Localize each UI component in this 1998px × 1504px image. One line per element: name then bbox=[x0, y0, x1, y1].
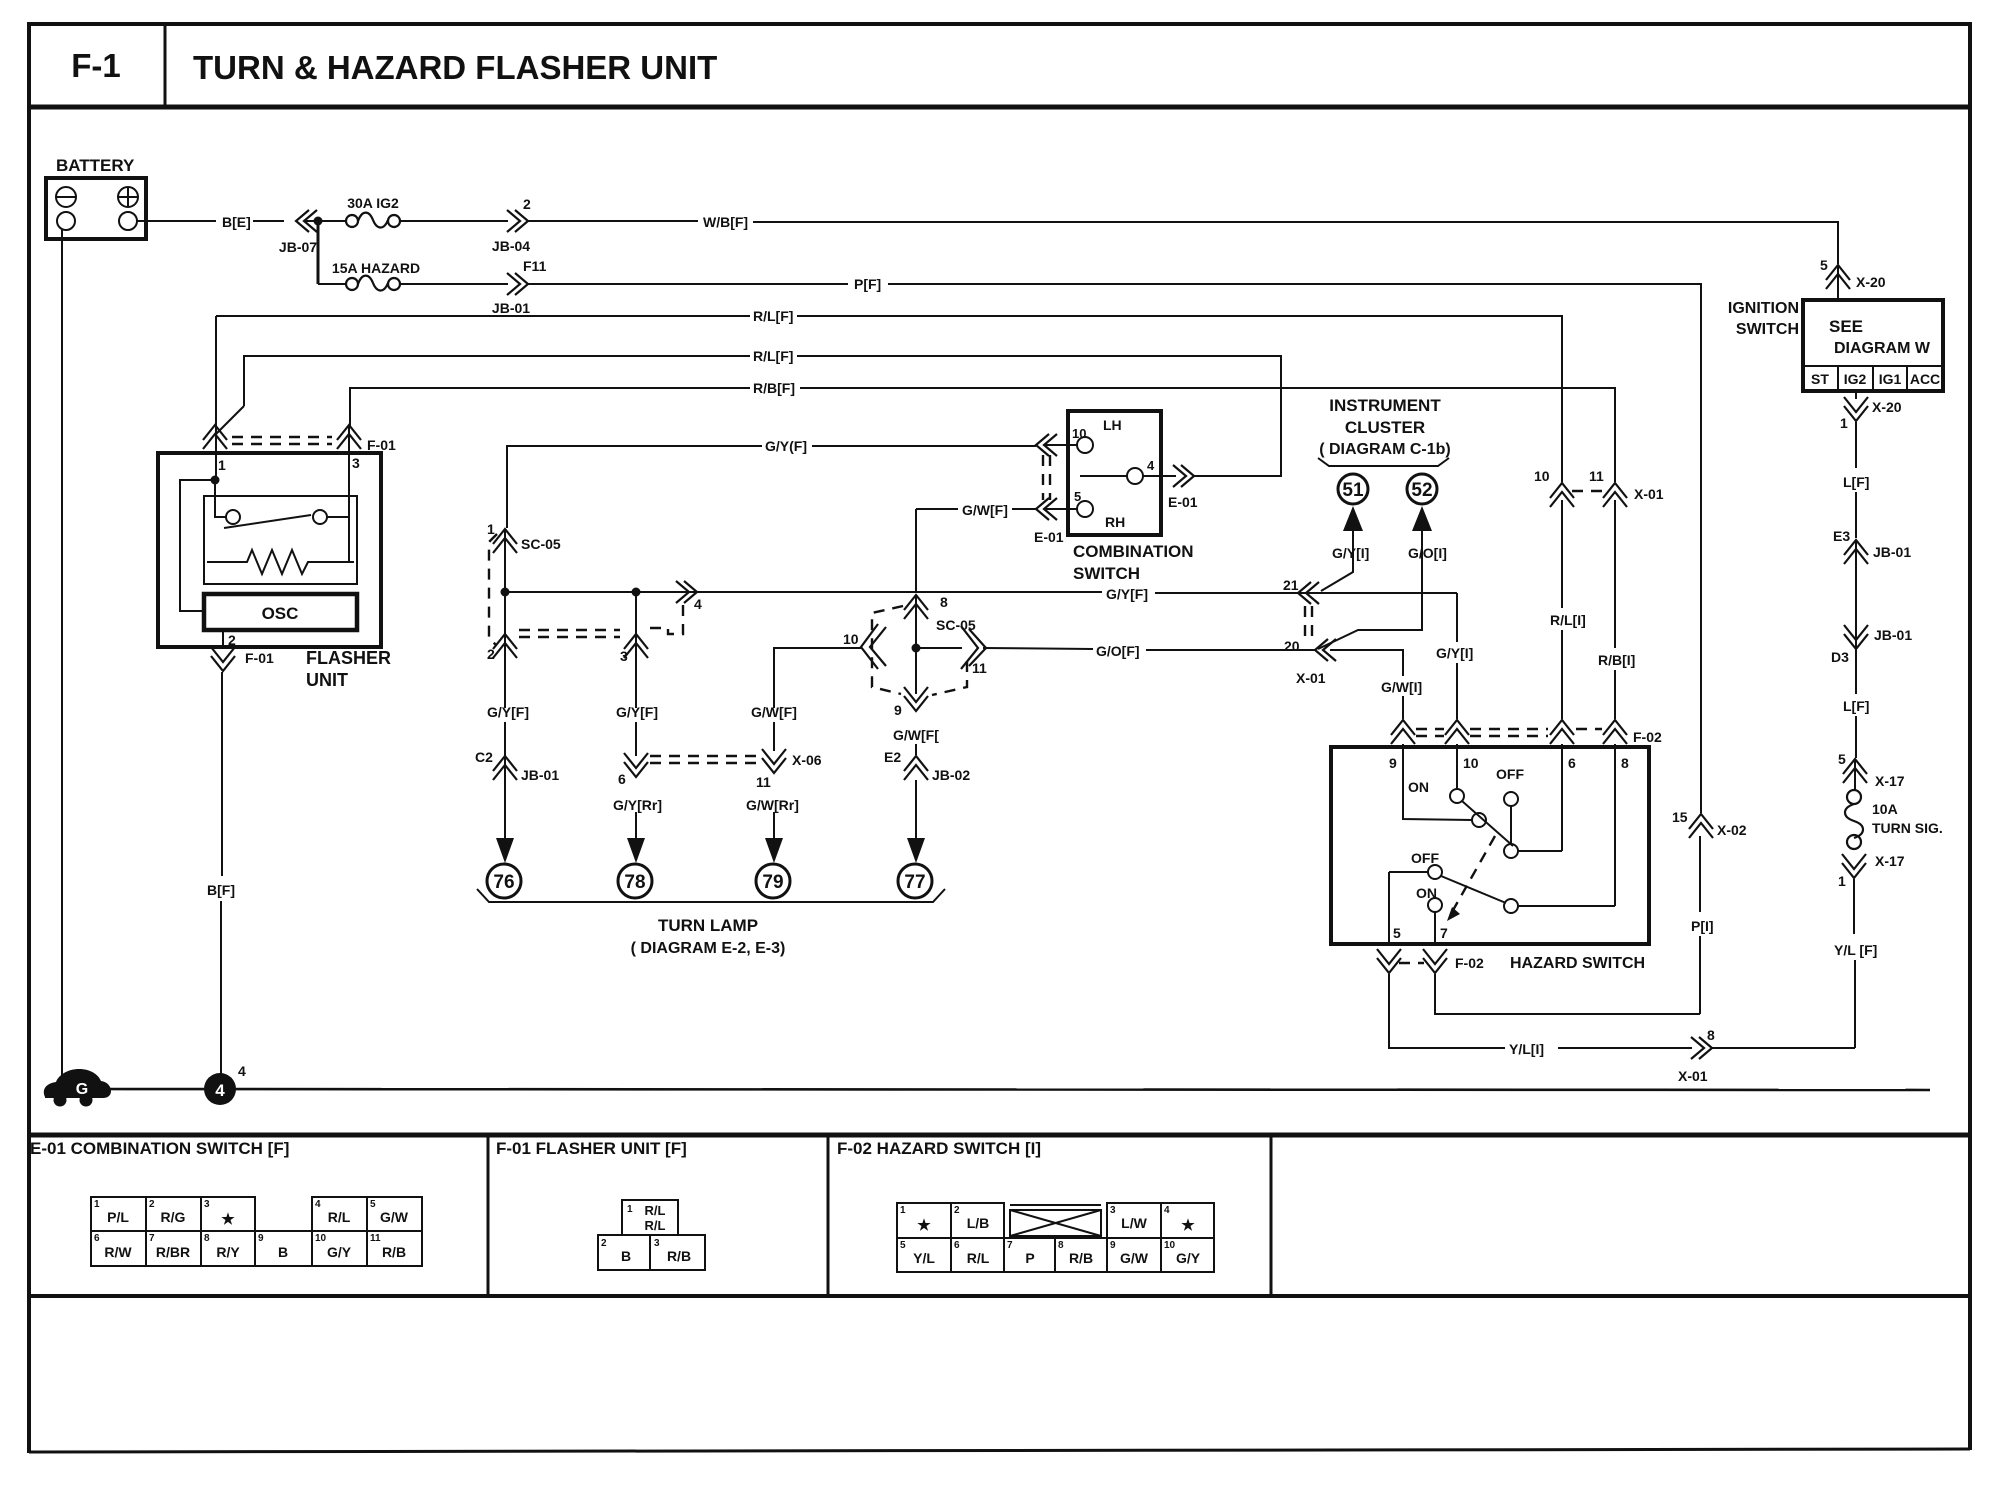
svg-text:Y/L: Y/L bbox=[913, 1250, 935, 1266]
svg-text:F-02 HAZARD SWITCH [I]: F-02 HAZARD SWITCH [I] bbox=[837, 1139, 1041, 1158]
svg-text:8: 8 bbox=[204, 1233, 210, 1244]
connector 4 bbox=[676, 581, 702, 612]
svg-text:R/L: R/L bbox=[645, 1203, 666, 1218]
svg-text:5: 5 bbox=[1838, 751, 1846, 767]
mech link dashed bbox=[1452, 836, 1495, 912]
wire R/B[F] bbox=[350, 388, 750, 426]
relay contact right bbox=[313, 510, 327, 524]
ignition switch box bbox=[1803, 300, 1943, 391]
svg-text:5: 5 bbox=[900, 1240, 906, 1251]
svg-text:10: 10 bbox=[1164, 1240, 1176, 1251]
wire R/L[I] drop bbox=[1561, 500, 1563, 608]
wires to box bottom bbox=[1388, 872, 1390, 944]
connector X-01 pin 10 bbox=[1534, 468, 1574, 507]
svg-text:10: 10 bbox=[843, 631, 859, 647]
svg-text:2: 2 bbox=[523, 196, 531, 212]
connector F-02 pin 6 bbox=[1550, 720, 1574, 744]
svg-text:5: 5 bbox=[370, 1199, 376, 1210]
fuse 15A HAZARD bbox=[332, 260, 420, 291]
wire SC-05 1-2 bbox=[504, 530, 506, 708]
svg-text:R/B: R/B bbox=[1069, 1250, 1093, 1266]
svg-text:ON: ON bbox=[1408, 779, 1429, 795]
panel divider E-01/F-01 bbox=[487, 1135, 490, 1296]
connector X-01 pin 21 bbox=[1283, 577, 1319, 604]
svg-text:3: 3 bbox=[1110, 1205, 1116, 1216]
svg-text:JB-07: JB-07 bbox=[279, 239, 317, 255]
wire Y/L[F] upper bbox=[1853, 879, 1855, 934]
wire P[I] riser upper bbox=[1699, 836, 1701, 912]
hazard upper switch bbox=[1408, 766, 1562, 858]
svg-text:X-02: X-02 bbox=[1717, 822, 1747, 838]
lamp 78 bbox=[618, 864, 652, 898]
F-01 connector pin grid bbox=[598, 1200, 705, 1270]
wire R/L[F] upper right run to R/L[I] drop bbox=[797, 316, 1562, 482]
svg-text:B[E]: B[E] bbox=[222, 214, 251, 230]
wire 77 feed bbox=[915, 780, 917, 838]
svg-text:X-17: X-17 bbox=[1875, 773, 1905, 789]
svg-text:3: 3 bbox=[352, 455, 360, 471]
fuse 30A IG2 bbox=[346, 195, 400, 228]
svg-text:R/L[I]: R/L[I] bbox=[1550, 612, 1586, 628]
wire E-01 to pin5 bbox=[1044, 508, 1077, 510]
svg-text:4: 4 bbox=[1147, 458, 1155, 473]
E-01 connector pin grid bbox=[91, 1197, 422, 1266]
wire W/B[F] to ignition corner bbox=[753, 222, 1838, 264]
svg-text:4: 4 bbox=[215, 1081, 225, 1100]
lamp 79 bbox=[756, 864, 790, 898]
svg-text:TURN & HAZARD FLASHER UNIT: TURN & HAZARD FLASHER UNIT bbox=[193, 49, 717, 86]
svg-text:8: 8 bbox=[1707, 1027, 1715, 1043]
svg-text:1: 1 bbox=[627, 1204, 633, 1215]
svg-text:11: 11 bbox=[370, 1233, 381, 1244]
wire Y/L[I] to X-01 bbox=[1558, 1047, 1692, 1049]
OSC box bbox=[204, 594, 357, 630]
svg-text:5: 5 bbox=[1820, 257, 1828, 273]
connector SC-05 pin 9 bbox=[894, 687, 928, 718]
connector X-20 pin 1 bbox=[1840, 397, 1902, 431]
panel divider F-02/blank bbox=[1270, 1135, 1273, 1296]
connector E3 JB-01 bbox=[1833, 528, 1911, 564]
wire R/L[F] lower right run to comb switch pin4 bbox=[797, 356, 1281, 476]
fuse 10A TURN SIG bbox=[1845, 790, 1943, 849]
svg-text:F-1: F-1 bbox=[71, 47, 121, 84]
svg-text:9: 9 bbox=[1110, 1240, 1116, 1251]
wire to X-17 bbox=[1855, 716, 1857, 758]
wire B[F] upper bbox=[221, 672, 223, 876]
dashed link 2-3 bbox=[519, 630, 620, 637]
svg-text:1: 1 bbox=[1838, 873, 1846, 889]
svg-text:G: G bbox=[76, 1081, 88, 1098]
svg-text:11: 11 bbox=[756, 774, 771, 790]
svg-text:RH: RH bbox=[1105, 514, 1125, 530]
connector E2 JB-02 bbox=[884, 749, 970, 783]
lamp 77 bbox=[898, 864, 932, 898]
wire pin1 inside bbox=[215, 453, 217, 480]
svg-text:G/Y: G/Y bbox=[1176, 1250, 1201, 1266]
arrow into 51 bbox=[1343, 506, 1363, 531]
connector F-02 pin 10 bbox=[1445, 720, 1469, 744]
wire 78 to connector 6 bbox=[635, 722, 637, 756]
wire G/O[F] bbox=[983, 648, 1093, 649]
svg-text:X-01: X-01 bbox=[1634, 486, 1664, 502]
svg-text:R/B: R/B bbox=[667, 1248, 691, 1264]
wire L[F] lower bbox=[1855, 650, 1857, 694]
svg-text:L/B: L/B bbox=[967, 1215, 990, 1231]
connector E-01 pin 10 bbox=[1036, 434, 1057, 456]
svg-text:HAZARD SWITCH: HAZARD SWITCH bbox=[1510, 955, 1645, 972]
svg-text:G/W[F[: G/W[F[ bbox=[893, 727, 939, 743]
wire Y/L to right riser bbox=[1712, 1047, 1855, 1049]
dashed link F-01 pins bbox=[232, 437, 332, 444]
turn lamp group brace bbox=[477, 889, 945, 902]
connector X-01 pin 8 bbox=[1678, 1027, 1715, 1084]
svg-text:10: 10 bbox=[1534, 468, 1550, 484]
svg-text:5: 5 bbox=[1074, 489, 1081, 504]
wire osc feedback branch bbox=[180, 480, 215, 611]
svg-text:JB-02: JB-02 bbox=[932, 767, 970, 783]
svg-text:F-01: F-01 bbox=[367, 437, 396, 453]
svg-text:8: 8 bbox=[1621, 755, 1629, 771]
svg-text:77: 77 bbox=[904, 872, 925, 893]
F-02 connector pin grid bbox=[897, 1203, 1214, 1272]
indicator 52 bbox=[1407, 474, 1437, 504]
connector 11 sc05 bbox=[961, 626, 987, 676]
svg-text:R/L: R/L bbox=[328, 1209, 351, 1225]
wire 79 feed bbox=[773, 812, 775, 838]
svg-text:G/W: G/W bbox=[380, 1209, 409, 1225]
svg-text:SWITCH: SWITCH bbox=[1736, 321, 1799, 338]
dashed links F-02 top bbox=[1416, 729, 1602, 736]
svg-text:G/Y(F]: G/Y(F] bbox=[765, 438, 807, 454]
svg-text:1: 1 bbox=[487, 521, 495, 537]
svg-text:R/G: R/G bbox=[161, 1209, 186, 1225]
connector X-01 pin 11 bbox=[1589, 468, 1664, 507]
svg-text:4: 4 bbox=[238, 1063, 246, 1079]
junction node G/W bbox=[912, 644, 921, 653]
connector F-01 pin 3 bbox=[337, 425, 396, 471]
wire 79 upper bbox=[773, 722, 775, 751]
dashed link F-02 bottom bbox=[1399, 962, 1424, 964]
svg-text:76: 76 bbox=[493, 872, 514, 893]
svg-text:UNIT: UNIT bbox=[306, 670, 348, 690]
wire R/B[I] drop bbox=[1614, 500, 1616, 648]
wires into box top bbox=[1456, 744, 1458, 790]
svg-text:6: 6 bbox=[618, 771, 626, 787]
connector 11 X-06 bbox=[756, 749, 822, 790]
svg-text:ST: ST bbox=[1811, 371, 1829, 387]
indicator 51 bbox=[1338, 474, 1368, 504]
connector 6 X-06 bbox=[618, 753, 648, 787]
wire G/Y[I] drop to F-02 pin 10 bbox=[1456, 593, 1458, 642]
svg-text:R/BR: R/BR bbox=[156, 1244, 190, 1260]
wire W/B[F] left part bbox=[528, 220, 698, 222]
arrow into lamp 77 bbox=[907, 838, 925, 863]
wire hazard fuse branch bbox=[317, 221, 320, 284]
svg-text:1: 1 bbox=[94, 1199, 100, 1210]
svg-text:Y/L[I]: Y/L[I] bbox=[1509, 1041, 1544, 1057]
connector X-17 upper bbox=[1838, 751, 1905, 789]
svg-text:FLASHER: FLASHER bbox=[306, 648, 391, 668]
wire pin4 out bbox=[1143, 475, 1176, 477]
svg-text:D3: D3 bbox=[1831, 649, 1849, 665]
svg-text:SWITCH: SWITCH bbox=[1073, 564, 1140, 583]
wire G/O[F] to pin 20 bbox=[1146, 649, 1315, 651]
wire fuse to JB-04 bbox=[400, 220, 508, 222]
wire G/W[F] label to corner bbox=[916, 508, 958, 510]
svg-text:G/W[I]: G/W[I] bbox=[1381, 679, 1422, 695]
svg-text:10: 10 bbox=[315, 1233, 327, 1244]
svg-text:15: 15 bbox=[1672, 809, 1688, 825]
wire IG2 out bbox=[1855, 391, 1857, 399]
connector F-02 pin 9 bbox=[1391, 720, 1415, 744]
svg-text:6: 6 bbox=[1568, 755, 1576, 771]
svg-text:2: 2 bbox=[149, 1199, 155, 1210]
svg-text:G/Y[Rr]: G/Y[Rr] bbox=[613, 797, 662, 813]
svg-text:4: 4 bbox=[694, 596, 702, 612]
svg-text:8: 8 bbox=[940, 594, 948, 610]
dashed shield left bracket bbox=[489, 534, 497, 645]
dashed link 3-4 bbox=[650, 604, 683, 634]
svg-text:C2: C2 bbox=[475, 749, 493, 765]
svg-text:R/B: R/B bbox=[382, 1244, 406, 1260]
wire 78 feed bbox=[635, 812, 637, 838]
wire Y/L[F] to corner bbox=[1854, 960, 1856, 1048]
dashed link X-01 10-11 bbox=[1572, 490, 1604, 492]
wire B[F] lower bbox=[220, 901, 222, 1089]
svg-text:G/Y[F]: G/Y[F] bbox=[1106, 586, 1148, 602]
dashed shield right bracket bbox=[932, 661, 967, 695]
svg-text:P[F]: P[F] bbox=[854, 276, 881, 292]
svg-text:JB-01: JB-01 bbox=[521, 767, 559, 783]
svg-text:R/L[F]: R/L[F] bbox=[753, 348, 793, 364]
pin 4 contact bbox=[1080, 458, 1155, 484]
wire G/W[I] branch bbox=[1330, 650, 1403, 676]
svg-text:3: 3 bbox=[620, 648, 628, 664]
wire E-01 to pin10 bbox=[1044, 444, 1077, 446]
connector X-02 pin 15 bbox=[1672, 809, 1747, 838]
svg-text:B: B bbox=[621, 1248, 631, 1264]
link arrowhead bbox=[1447, 907, 1460, 921]
arrow into lamp 76 bbox=[496, 838, 514, 863]
wire branch to connector 3 bbox=[635, 592, 637, 708]
svg-text:P: P bbox=[1025, 1250, 1034, 1266]
svg-text:7: 7 bbox=[1007, 1240, 1013, 1251]
svg-text:G/W[Rr]: G/W[Rr] bbox=[746, 797, 799, 813]
svg-text:8: 8 bbox=[1058, 1240, 1064, 1251]
dashed shield left bracket bbox=[872, 606, 903, 694]
svg-text:X-20: X-20 bbox=[1872, 399, 1902, 415]
svg-text:10A: 10A bbox=[1872, 801, 1898, 817]
svg-text:JB-04: JB-04 bbox=[492, 238, 530, 254]
wire battery ground drop bbox=[61, 230, 63, 1080]
svg-text:E3: E3 bbox=[1833, 528, 1850, 544]
svg-text:E-01: E-01 bbox=[1168, 494, 1198, 510]
connector F-02 pin 8 bbox=[1603, 720, 1662, 745]
svg-text:X-06: X-06 bbox=[792, 752, 822, 768]
svg-text:G/W: G/W bbox=[1120, 1250, 1149, 1266]
svg-text:X-17: X-17 bbox=[1875, 853, 1905, 869]
connector X-01 pin 20 bbox=[1284, 638, 1336, 686]
connector X-17 lower bbox=[1838, 853, 1905, 889]
svg-text:★: ★ bbox=[917, 1217, 931, 1234]
wire G/Y[F] to E-01 bbox=[812, 445, 1036, 447]
svg-text:JB-01: JB-01 bbox=[492, 300, 530, 316]
svg-text:2: 2 bbox=[601, 1238, 607, 1249]
pin 10 contact bbox=[1072, 417, 1122, 453]
svg-text:F-01: F-01 bbox=[245, 650, 274, 666]
arrow into 52 bbox=[1412, 506, 1432, 531]
svg-text:TURN SIG.: TURN SIG. bbox=[1872, 820, 1943, 836]
wire pin 2 bbox=[222, 630, 224, 649]
svg-text:JB-01: JB-01 bbox=[1873, 544, 1911, 560]
svg-text:BATTERY: BATTERY bbox=[56, 156, 135, 175]
svg-text:9: 9 bbox=[1389, 755, 1397, 771]
wire R/L[F] upper bbox=[216, 315, 750, 317]
svg-text:2: 2 bbox=[487, 646, 495, 662]
svg-text:G/Y: G/Y bbox=[327, 1244, 352, 1260]
combination switch box bbox=[1068, 411, 1161, 535]
svg-text:X-01: X-01 bbox=[1296, 670, 1326, 686]
svg-text:F-02: F-02 bbox=[1455, 955, 1484, 971]
svg-text:OSC: OSC bbox=[262, 604, 299, 623]
svg-text:10: 10 bbox=[1072, 426, 1086, 441]
main diagram bottom thick rule bbox=[29, 1133, 1970, 1138]
svg-text:1: 1 bbox=[218, 457, 226, 473]
wire P[I] riser lower bbox=[1699, 936, 1701, 1014]
connector D3 JB-01 bbox=[1831, 625, 1912, 665]
arrow into lamp 79 bbox=[765, 838, 783, 863]
svg-text:P/L: P/L bbox=[107, 1209, 129, 1225]
svg-text:E2: E2 bbox=[884, 749, 901, 765]
svg-text:F11: F11 bbox=[523, 258, 547, 274]
ground rail wire bbox=[98, 1089, 1930, 1090]
svg-text:L[F]: L[F] bbox=[1843, 474, 1869, 490]
svg-text:7: 7 bbox=[149, 1233, 155, 1244]
battery bbox=[46, 178, 146, 239]
svg-text:X-20: X-20 bbox=[1856, 274, 1886, 290]
wire pin5 Y/L bbox=[1389, 974, 1505, 1048]
svg-text:IGNITION: IGNITION bbox=[1728, 300, 1799, 317]
svg-text:X-01: X-01 bbox=[1678, 1068, 1708, 1084]
svg-text:9: 9 bbox=[258, 1233, 264, 1244]
svg-text:IG1: IG1 bbox=[1879, 371, 1902, 387]
svg-text:JB-01: JB-01 bbox=[1874, 627, 1912, 643]
wire pin1 to relay contact bbox=[215, 480, 226, 517]
wire L[F] to E3 bbox=[1855, 492, 1857, 538]
svg-text:F-02: F-02 bbox=[1633, 729, 1662, 745]
svg-text:G/O[I]: G/O[I] bbox=[1408, 545, 1447, 561]
wire G/W bus to lamp 79 bbox=[774, 648, 862, 708]
pin 5 contact bbox=[1074, 489, 1125, 530]
svg-text:LH: LH bbox=[1103, 417, 1122, 433]
connector F-01 pin 1 bbox=[203, 425, 227, 473]
svg-text:L/W: L/W bbox=[1121, 1215, 1147, 1231]
wire 76 feed bbox=[504, 722, 506, 838]
svg-text:4: 4 bbox=[1164, 1205, 1170, 1216]
resistor bbox=[207, 550, 354, 574]
wire to fuse 30A bbox=[318, 220, 346, 222]
svg-text:★: ★ bbox=[1181, 1217, 1195, 1234]
ground car body symbol G bbox=[44, 1069, 111, 1107]
svg-text:4: 4 bbox=[315, 1199, 321, 1210]
connector F11 JB-01 bbox=[492, 258, 547, 316]
junction node bbox=[314, 217, 323, 226]
connector 3 bbox=[620, 634, 648, 664]
svg-text:10: 10 bbox=[1463, 755, 1479, 771]
svg-text:2: 2 bbox=[228, 632, 236, 648]
svg-text:G/W[F]: G/W[F] bbox=[962, 502, 1008, 518]
svg-text:30A IG2: 30A IG2 bbox=[347, 195, 399, 211]
svg-text:G/Y[F]: G/Y[F] bbox=[487, 704, 529, 720]
connector JB-04 pin 2 bbox=[492, 196, 531, 254]
svg-text:3: 3 bbox=[204, 1199, 210, 1210]
svg-text:★: ★ bbox=[221, 1211, 235, 1228]
svg-text:52: 52 bbox=[1411, 480, 1432, 501]
relay lever bbox=[224, 515, 311, 528]
svg-text:78: 78 bbox=[624, 872, 645, 893]
svg-text:R/L[F]: R/L[F] bbox=[753, 308, 793, 324]
dashed link 6-11 bbox=[650, 756, 756, 763]
dashed link E-01 pins bbox=[1043, 455, 1050, 500]
wire R/L[F] drop to flasher pin1 bbox=[215, 316, 217, 453]
svg-text:B: B bbox=[278, 1244, 288, 1260]
svg-text:W/B[F]: W/B[F] bbox=[703, 214, 748, 230]
connector F-01 pin 2 bbox=[211, 647, 274, 671]
svg-text:G/Y[I]: G/Y[I] bbox=[1332, 545, 1369, 561]
wire battery B[E] bbox=[137, 220, 216, 222]
wire G/W[F] drop from comb switch bbox=[915, 509, 917, 592]
svg-text:5: 5 bbox=[1393, 925, 1401, 941]
svg-text:1: 1 bbox=[1840, 415, 1848, 431]
title band bottom rule bbox=[29, 105, 1970, 110]
crossed-out centre cell bbox=[1010, 1210, 1101, 1236]
wire pin3 into box bbox=[348, 426, 350, 562]
svg-text:G/Y[F]: G/Y[F] bbox=[616, 704, 658, 720]
wire B[E] to JB-07 bbox=[253, 220, 284, 222]
svg-text:3: 3 bbox=[654, 1238, 660, 1249]
hazard switch box bbox=[1331, 747, 1649, 944]
connector SC-05 pin 8 bbox=[904, 594, 976, 633]
svg-text:P[I]: P[I] bbox=[1691, 918, 1714, 934]
svg-text:COMBINATION: COMBINATION bbox=[1073, 542, 1194, 561]
svg-text:G/Y[I]: G/Y[I] bbox=[1436, 645, 1473, 661]
svg-text:G/W[F]: G/W[F] bbox=[751, 704, 797, 720]
connector E-01 pin 5 bbox=[1034, 498, 1064, 545]
wire G/Y[I] to 51 bbox=[1321, 531, 1353, 591]
svg-text:SC-05: SC-05 bbox=[521, 536, 561, 552]
hazard lower switch bbox=[1389, 850, 1615, 913]
wire P[F] left part bbox=[528, 283, 848, 285]
svg-text:11: 11 bbox=[1589, 468, 1604, 484]
connector 10 bbox=[843, 624, 886, 669]
wire G/W[F] label to E-01 bbox=[1012, 508, 1036, 510]
wire pin9 stub bbox=[1403, 744, 1472, 820]
svg-text:DIAGRAM W: DIAGRAM W bbox=[1834, 340, 1931, 357]
svg-text:51: 51 bbox=[1342, 480, 1364, 501]
svg-text:CLUSTER: CLUSTER bbox=[1345, 418, 1425, 437]
connector SC-05 pin 2 bbox=[487, 634, 517, 662]
svg-text:F-01 FLASHER UNIT [F]: F-01 FLASHER UNIT [F] bbox=[496, 1139, 687, 1158]
wire R/L[F] lower bbox=[244, 356, 750, 406]
connector-table band bottom rule bbox=[29, 1294, 1970, 1298]
flasher unit box bbox=[158, 453, 381, 647]
connector JB-07 bbox=[279, 210, 318, 255]
svg-text:6: 6 bbox=[94, 1233, 100, 1244]
connector X-20 pin 5 bbox=[1820, 257, 1886, 290]
ground node 4 bbox=[204, 1063, 246, 1105]
relay inner box bbox=[204, 496, 357, 584]
wire G/Y[F] top run bbox=[507, 446, 762, 528]
